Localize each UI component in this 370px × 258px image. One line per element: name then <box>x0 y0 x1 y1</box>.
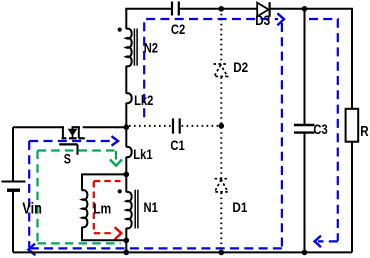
svg-text:C3: C3 <box>313 122 327 137</box>
svg-text:N1: N1 <box>144 200 158 215</box>
svg-text:C1: C1 <box>170 138 184 153</box>
svg-text:S: S <box>64 151 71 166</box>
svg-text:Lm: Lm <box>93 200 111 217</box>
svg-text:D3: D3 <box>255 12 270 28</box>
svg-text:R: R <box>360 123 369 140</box>
svg-text:Vin: Vin <box>22 200 42 218</box>
svg-text:D1: D1 <box>232 199 247 215</box>
svg-text:Lk1: Lk1 <box>133 147 152 162</box>
svg-text:Lk2: Lk2 <box>134 93 153 108</box>
svg-text:C2: C2 <box>171 22 185 37</box>
svg-text:D2: D2 <box>233 59 248 75</box>
svg-text:N2: N2 <box>144 40 158 55</box>
